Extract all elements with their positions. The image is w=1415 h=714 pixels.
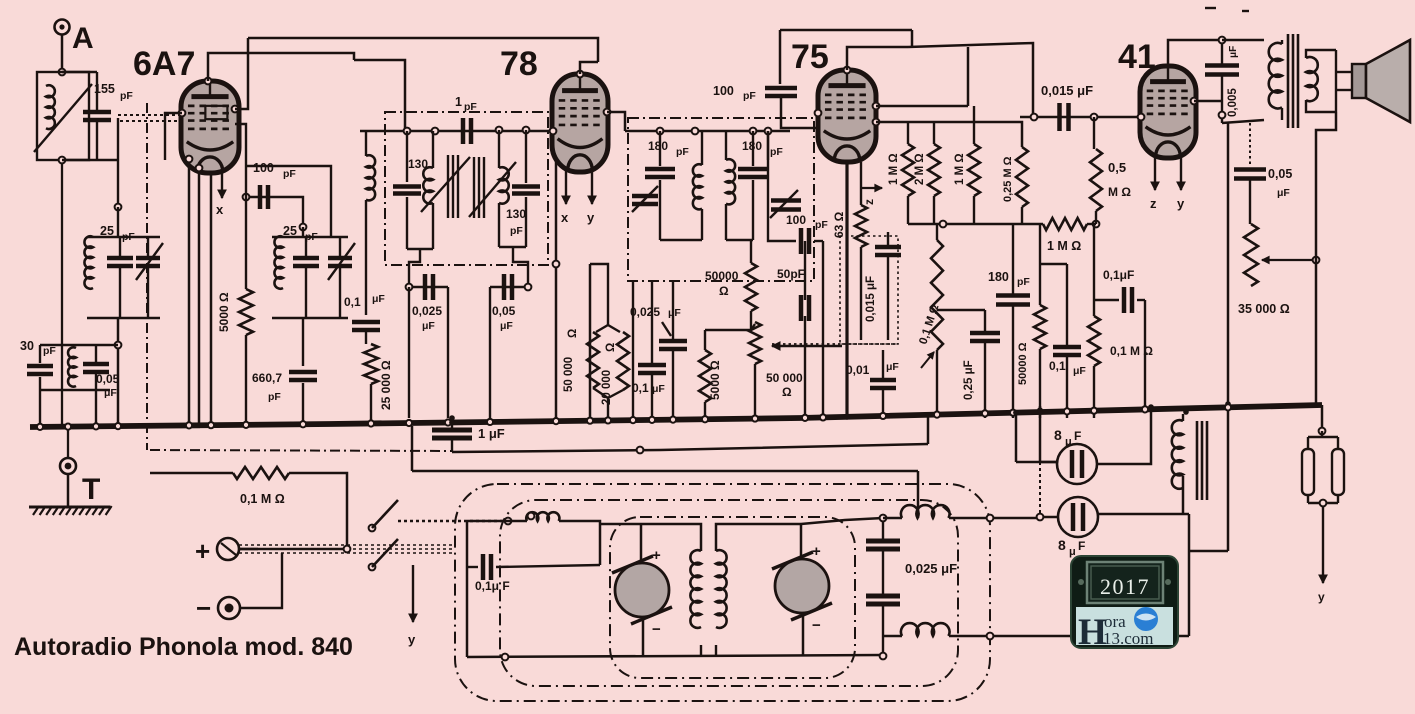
svg-text:5000 Ω: 5000 Ω bbox=[217, 292, 231, 332]
svg-text:0,25 μF: 0,25 μF bbox=[963, 360, 975, 400]
wire hidden bbox=[164, 160, 166, 424]
capacitor 100pF 75 bbox=[765, 88, 797, 96]
svg-text:0,5: 0,5 bbox=[1108, 160, 1126, 175]
coil antenna L1 bbox=[46, 85, 55, 129]
wire to battery switch bbox=[289, 473, 347, 545]
8uF a plates bbox=[1072, 450, 1082, 478]
wire vib2 bottom lead bbox=[802, 613, 805, 656]
wire cluster2 bottom rail bbox=[272, 317, 348, 319]
bus junction bbox=[880, 413, 886, 419]
bus junction bbox=[65, 424, 71, 430]
svg-text:F: F bbox=[1078, 539, 1085, 553]
junction bbox=[93, 424, 98, 429]
capacitor 8uF b bbox=[1058, 497, 1098, 537]
svg-text:pF: pF bbox=[743, 90, 756, 102]
svg-text:8: 8 bbox=[1058, 537, 1066, 553]
node bbox=[528, 513, 535, 520]
bus junction bbox=[368, 420, 374, 426]
svg-text:pF: pF bbox=[1017, 276, 1030, 288]
svg-text:63 Ω: 63 Ω bbox=[832, 211, 846, 238]
wire 41 plate to OT bbox=[1194, 100, 1222, 103]
svg-text:6A7: 6A7 bbox=[133, 45, 195, 83]
wire to rectifier bbox=[949, 517, 1040, 520]
capacitor 25pF osc bbox=[293, 258, 319, 266]
node bbox=[115, 342, 122, 349]
bus junction bbox=[186, 422, 192, 428]
skip bbox=[527, 287, 529, 418]
svg-text:0,05: 0,05 bbox=[1268, 167, 1292, 181]
wire bottom to badge bbox=[949, 635, 1044, 638]
node 78 right bbox=[604, 109, 611, 116]
node 75 top cap bbox=[844, 67, 851, 74]
bus junction solid bbox=[1183, 405, 1189, 411]
IF1 core line c bbox=[483, 157, 485, 218]
wire 6A7 osc pin down bbox=[235, 124, 246, 289]
node box edge a bbox=[987, 515, 994, 522]
wire B rail 2 bbox=[412, 470, 918, 473]
bus junction bbox=[630, 417, 636, 423]
capacitor 0.1uF col bbox=[638, 365, 666, 373]
bus junction bbox=[1225, 404, 1231, 410]
wire bus drop 412 bbox=[411, 426, 414, 471]
wire 75 cathode thick to bus bbox=[845, 162, 848, 418]
coil IF1 primary bbox=[423, 167, 433, 203]
capacitor 130pF IF1b bbox=[512, 187, 540, 194]
resistor 1M a bbox=[902, 144, 914, 196]
svg-text:0,1μ F: 0,1μ F bbox=[475, 579, 510, 593]
svg-text:2 M Ω: 2 M Ω bbox=[914, 153, 926, 185]
node bbox=[496, 127, 503, 134]
trimmer arrow osc bbox=[328, 243, 355, 280]
svg-text:25: 25 bbox=[283, 224, 297, 238]
svg-text:pF: pF bbox=[510, 225, 523, 237]
arrow x 78 bbox=[562, 170, 570, 204]
vibrator contact disc 1 bbox=[615, 563, 669, 617]
vib1 contact bar bottom bbox=[631, 607, 672, 624]
svg-text:−: − bbox=[196, 593, 211, 623]
wire top rail to 78 grid cap bbox=[248, 38, 598, 62]
battery terminal minus bbox=[218, 597, 240, 619]
svg-text:75: 75 bbox=[791, 38, 829, 76]
IF transformer 1 shield box bbox=[385, 112, 548, 265]
wire 6A7 cathode to bus bbox=[188, 159, 191, 424]
svg-text:5000 Ω: 5000 Ω bbox=[708, 360, 722, 400]
wire rail2 into box bbox=[917, 471, 920, 518]
svg-text:660,7: 660,7 bbox=[252, 371, 282, 385]
svg-text:50 000: 50 000 bbox=[766, 371, 803, 385]
choke core 3 bbox=[1206, 421, 1209, 500]
node bbox=[940, 221, 947, 228]
wire box left leg bbox=[466, 521, 469, 657]
svg-text:35 000 Ω: 35 000 Ω bbox=[1238, 302, 1290, 316]
svg-text:y: y bbox=[408, 632, 416, 647]
OT core 3 bbox=[1297, 34, 1300, 128]
capacitor 0.05uF IF bbox=[504, 274, 512, 300]
svg-text:0,025 μF: 0,025 μF bbox=[905, 561, 957, 576]
svg-text:pF: pF bbox=[43, 345, 56, 357]
fuse b bbox=[1332, 449, 1344, 495]
capacitor 0.015uF coupling bbox=[1060, 103, 1069, 131]
resistor 50000 b bbox=[1034, 305, 1046, 349]
capacitor 155pF bbox=[83, 112, 111, 120]
svg-text:+: + bbox=[812, 543, 821, 560]
wire OT top bbox=[1222, 39, 1264, 42]
junction choke top bbox=[1183, 409, 1189, 415]
svg-text:y: y bbox=[1318, 590, 1325, 604]
resistor 50000 det bbox=[745, 263, 757, 311]
svg-text:1: 1 bbox=[455, 95, 462, 109]
resistor 0.1M right bbox=[1088, 316, 1100, 366]
wire 100pF run bbox=[246, 196, 290, 198]
node bbox=[525, 284, 532, 291]
svg-text:130: 130 bbox=[506, 207, 526, 221]
node entry bbox=[505, 518, 512, 525]
battery terminal plus bbox=[217, 538, 239, 560]
svg-text:Ω: Ω bbox=[567, 329, 579, 338]
svg-text:180: 180 bbox=[648, 139, 668, 153]
pot arrow bbox=[921, 352, 934, 368]
bus junction solid bbox=[449, 420, 455, 426]
node 41 grid bbox=[1138, 114, 1145, 121]
node lamp bottom bbox=[1320, 500, 1327, 507]
dotted entry line bbox=[398, 520, 508, 522]
svg-text:100: 100 bbox=[786, 213, 806, 227]
wire rail drop bbox=[1039, 224, 1041, 264]
wire rail b bbox=[876, 122, 1022, 147]
capacitor 1uF bbox=[432, 430, 472, 438]
pot arrow 35000 bbox=[1262, 256, 1313, 263]
wire diode load to bus bbox=[822, 241, 824, 418]
coil osc L4 bbox=[274, 236, 283, 288]
trimmer arrow bbox=[632, 186, 658, 212]
trimmer arrow antenna bbox=[34, 84, 92, 152]
bus junction bbox=[445, 419, 451, 425]
node bbox=[243, 194, 250, 201]
wire bus drop 1016 bbox=[1015, 410, 1018, 462]
node 6A7 right bbox=[232, 106, 239, 113]
node bbox=[765, 128, 772, 135]
trimmer capacitor bbox=[136, 258, 160, 266]
wire 0.1uF right to bus bbox=[1144, 300, 1146, 406]
svg-text:y: y bbox=[587, 210, 595, 225]
coil vib transformer secondary bbox=[716, 550, 727, 628]
resistor 25000 bbox=[364, 344, 378, 384]
capacitor 0.025uF vib a bbox=[866, 541, 900, 549]
capacitor 0.01uF bbox=[870, 380, 896, 388]
svg-text:50 000: 50 000 bbox=[563, 357, 575, 392]
wire down bbox=[1188, 551, 1191, 636]
svg-text:pF: pF bbox=[122, 231, 135, 243]
coil hash filter bbox=[526, 512, 559, 521]
wire to vibrator bbox=[559, 521, 600, 565]
svg-text:y: y bbox=[1177, 196, 1185, 211]
svg-text:−: − bbox=[652, 621, 661, 638]
wire IF1 top rail bbox=[360, 130, 553, 133]
node box edge b bbox=[987, 633, 994, 640]
dotted AVC line bbox=[772, 343, 898, 345]
wire trio top rail bbox=[40, 344, 110, 346]
IF1 core line bbox=[447, 155, 449, 218]
wire terminal to ground bbox=[67, 474, 70, 506]
wire top to 0.015 col bbox=[908, 43, 1033, 117]
capacitor 50pF bbox=[801, 295, 809, 321]
svg-text:8: 8 bbox=[1054, 427, 1062, 443]
wire IF2a bottom bbox=[660, 239, 702, 241]
IF transformer 2 shield box bbox=[628, 118, 814, 281]
OT core 1 bbox=[1287, 34, 1290, 128]
wire IF1b stem bbox=[513, 247, 528, 287]
resistor 5000 det bbox=[699, 350, 711, 402]
svg-text:pF: pF bbox=[770, 146, 783, 158]
svg-text:μF: μF bbox=[652, 383, 665, 395]
arrow z 41 bbox=[1151, 156, 1159, 190]
node lamp top bbox=[1319, 428, 1326, 435]
svg-text:1 M Ω: 1 M Ω bbox=[888, 153, 900, 185]
resistor 2M bbox=[928, 144, 940, 196]
svg-text:180: 180 bbox=[742, 139, 762, 153]
svg-text:0,025: 0,025 bbox=[412, 304, 442, 318]
wire to 100pF bbox=[779, 30, 782, 84]
dash-dot screen line bbox=[150, 450, 452, 451]
wire screen rail bbox=[252, 53, 354, 60]
wire OT return bbox=[1227, 123, 1230, 551]
arrow y 78 bbox=[588, 170, 596, 204]
scan speck bbox=[1205, 7, 1216, 9]
capacitor 180pF IF2b bbox=[738, 169, 768, 177]
svg-text:100: 100 bbox=[253, 161, 274, 175]
capacitor 0.005uF bbox=[1205, 66, 1239, 75]
wire bbox=[117, 207, 119, 237]
node bbox=[1219, 112, 1226, 119]
tube 41 bbox=[1140, 66, 1196, 158]
capacitor 130pF IF1a bbox=[393, 187, 421, 194]
choke core 1 bbox=[1196, 421, 1199, 500]
tube 6A7 bbox=[181, 81, 239, 173]
AVC arrow bbox=[772, 342, 842, 350]
capacitor 180pF IF2a bbox=[645, 169, 675, 177]
bus junction bbox=[670, 417, 676, 423]
svg-text:pF: pF bbox=[464, 101, 477, 113]
wire cap bottom bbox=[96, 120, 98, 160]
trimmer arrow bbox=[136, 243, 163, 280]
antenna terminal bbox=[55, 20, 70, 35]
label arrow bbox=[662, 322, 671, 336]
svg-text:25 000 Ω: 25 000 Ω bbox=[379, 360, 393, 410]
wire IF1b bottom bbox=[499, 246, 526, 248]
bus junction bbox=[37, 424, 43, 430]
scan speck b bbox=[1242, 10, 1249, 12]
capacitor 1pF bbox=[463, 118, 471, 144]
coil RF choke L5 bbox=[366, 155, 375, 200]
resistor 1M b bbox=[968, 144, 980, 196]
bus junction bbox=[702, 416, 708, 422]
node bbox=[1093, 221, 1100, 228]
wire 78 cathode to bus bbox=[555, 160, 558, 418]
vib1 contact bar top bbox=[612, 556, 653, 573]
svg-text:F: F bbox=[1074, 429, 1081, 443]
wire to IF1 bbox=[354, 60, 405, 131]
svg-text:13.com: 13.com bbox=[1103, 629, 1154, 648]
node 41 plate bbox=[1191, 98, 1198, 105]
svg-text:Autoradio Phonola mod. 840: Autoradio Phonola mod. 840 bbox=[14, 633, 353, 661]
dotted field line bbox=[1249, 123, 1251, 165]
resistor 63 bbox=[855, 205, 867, 247]
wire 75 cap rail bbox=[847, 47, 908, 70]
trimmer IF2a bbox=[632, 196, 658, 204]
dotted AVC box bbox=[840, 236, 898, 344]
wire col bbox=[632, 281, 634, 418]
capacitor IF2 var bbox=[771, 201, 801, 210]
capacitor 8uF a bbox=[1057, 444, 1097, 484]
bus junction bbox=[243, 422, 249, 428]
svg-text:0,005: 0,005 bbox=[1227, 88, 1239, 117]
svg-text:50000: 50000 bbox=[705, 269, 739, 283]
svg-text:0,05: 0,05 bbox=[96, 372, 120, 386]
svg-text:x: x bbox=[216, 202, 224, 217]
svg-text:0,025: 0,025 bbox=[630, 305, 660, 319]
capacitor 0.025uF bbox=[425, 274, 433, 300]
capacitor 100pF det bbox=[801, 228, 809, 254]
coil OT primary bbox=[1269, 43, 1282, 109]
bus junction bbox=[115, 423, 121, 429]
wire 78 top cap bbox=[580, 62, 598, 74]
coil hash choke bottom bbox=[901, 623, 950, 636]
svg-text:μF: μF bbox=[422, 320, 435, 332]
wire top cap to rail bbox=[208, 53, 252, 81]
capacitor 0.015uF det bbox=[875, 247, 901, 255]
coil IF1 secondary bbox=[499, 167, 509, 203]
node bbox=[880, 653, 887, 660]
wire to bus bbox=[408, 287, 410, 418]
node antenna bottom bbox=[59, 157, 66, 164]
wire bbox=[119, 266, 121, 318]
switch blade 2 bbox=[372, 539, 398, 567]
svg-text:0,25 M Ω: 0,25 M Ω bbox=[1002, 156, 1014, 202]
bus junction bbox=[587, 418, 593, 424]
resistor 5000 bbox=[239, 289, 253, 335]
wire minus lead bbox=[240, 553, 282, 608]
svg-text:0,015 μF: 0,015 μF bbox=[1041, 83, 1093, 98]
node antenna top bbox=[59, 69, 66, 76]
svg-text:1 M Ω: 1 M Ω bbox=[1047, 239, 1081, 253]
wire bbox=[1093, 117, 1095, 149]
wire IF2b bottom bbox=[726, 239, 753, 241]
wire to padder bbox=[302, 318, 304, 366]
capacitor 0.025uF col bbox=[659, 341, 687, 349]
wire IF1a stem bbox=[409, 249, 420, 287]
tube 78 bbox=[552, 74, 608, 172]
wire transformer top to vib bbox=[641, 524, 701, 551]
node 6A7 top cap bbox=[205, 78, 212, 85]
svg-text:2017: 2017 bbox=[1100, 574, 1150, 599]
svg-text:μF: μF bbox=[500, 320, 513, 332]
capacitor 0.05uF bbox=[83, 364, 109, 372]
wire to bus bbox=[447, 287, 449, 418]
node bbox=[1037, 514, 1044, 521]
vibrator outer shield box bbox=[455, 484, 990, 701]
svg-text:z: z bbox=[862, 199, 876, 205]
wire cluster1 bottom rail bbox=[87, 317, 160, 319]
wire B rail 1 bbox=[452, 444, 928, 452]
tuning arrow IF1b bbox=[469, 162, 516, 217]
wire cluster1 to bus bbox=[117, 318, 120, 424]
svg-text:Ω: Ω bbox=[782, 385, 792, 399]
wire bbox=[705, 329, 751, 331]
wire to bus bbox=[370, 384, 372, 424]
node bbox=[1219, 37, 1226, 44]
bus junction solid bbox=[1037, 409, 1043, 415]
capacitor 100pF bbox=[260, 185, 268, 209]
wire bus end down bbox=[1321, 405, 1324, 431]
junction bbox=[1037, 407, 1043, 413]
wire trio bottom rail bbox=[40, 389, 110, 391]
capacitor 0.1uF b bbox=[1053, 347, 1081, 355]
node 75 right b bbox=[873, 119, 880, 126]
wire bbox=[1093, 224, 1095, 300]
arrow z 75 bbox=[862, 184, 882, 191]
bus junction solid bbox=[1013, 410, 1019, 416]
wire 0.015 row bbox=[1020, 116, 1141, 119]
vibrator mid shield box bbox=[500, 500, 958, 686]
coil L3 bbox=[68, 347, 76, 386]
node cluster2 top bbox=[300, 224, 307, 231]
svg-text:−: − bbox=[812, 617, 821, 634]
fuse a bbox=[1302, 449, 1314, 495]
svg-text:0,1: 0,1 bbox=[344, 295, 361, 309]
wire antenna coil to bus bbox=[61, 160, 63, 427]
bus junction bbox=[605, 417, 611, 423]
bus junction bbox=[1010, 410, 1016, 416]
svg-text:μF: μF bbox=[1228, 46, 1239, 58]
coil OT secondary bbox=[1306, 57, 1318, 101]
svg-text:μF: μF bbox=[1277, 187, 1290, 199]
wire lamp b bbox=[1337, 437, 1339, 449]
resistor 1M horizontal bbox=[1043, 218, 1087, 230]
antenna tuner box L1 bbox=[37, 72, 89, 160]
svg-text:Ω: Ω bbox=[719, 284, 729, 298]
wire to 8uF a bbox=[1016, 461, 1057, 464]
wire grid drop bbox=[117, 118, 119, 207]
bus junction bbox=[649, 417, 655, 423]
node bbox=[1313, 257, 1320, 264]
wire det to bus bbox=[804, 316, 806, 418]
resistor 0.1M bias bbox=[233, 467, 289, 479]
resistor 50000 bbox=[587, 332, 599, 388]
capacitor 0.05uF out bbox=[1234, 170, 1266, 179]
wire plate rail 75 bbox=[876, 105, 968, 108]
node bbox=[1091, 114, 1098, 121]
wire pot link bbox=[751, 324, 755, 330]
wire box bottom rail bbox=[467, 655, 883, 657]
svg-text:M Ω: M Ω bbox=[1108, 185, 1131, 199]
terminal slash bbox=[221, 543, 236, 555]
svg-text:0,1 M Ω: 0,1 M Ω bbox=[1110, 344, 1153, 358]
wire bbox=[39, 345, 41, 363]
node bbox=[186, 156, 193, 163]
node bbox=[502, 654, 509, 661]
bus junction bbox=[1064, 408, 1070, 414]
wire 6A7 pin2 bbox=[210, 171, 213, 424]
fork bottom bbox=[593, 388, 623, 398]
wire lamp a bbox=[1307, 437, 1309, 449]
wire bbox=[119, 237, 121, 258]
wire 100pF to 75 grid bbox=[781, 96, 818, 128]
wire det cap bbox=[768, 131, 796, 241]
svg-text:μF: μF bbox=[668, 307, 681, 319]
wire 78 pin to bus bbox=[589, 264, 592, 418]
svg-text:0,1: 0,1 bbox=[1049, 359, 1066, 373]
svg-text:T: T bbox=[82, 473, 100, 506]
